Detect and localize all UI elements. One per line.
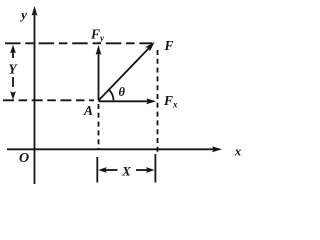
svg-text:θ: θ	[119, 85, 126, 99]
svg-text:Fy: Fy	[90, 27, 105, 44]
svg-text:y: y	[19, 7, 27, 22]
svg-text:F: F	[164, 38, 174, 53]
svg-text:A: A	[83, 103, 93, 118]
svg-text:x: x	[234, 144, 242, 159]
svg-text:O: O	[19, 151, 29, 166]
svg-text:Y: Y	[8, 62, 18, 77]
svg-text:X: X	[121, 164, 131, 179]
svg-text:Fx: Fx	[163, 93, 178, 110]
